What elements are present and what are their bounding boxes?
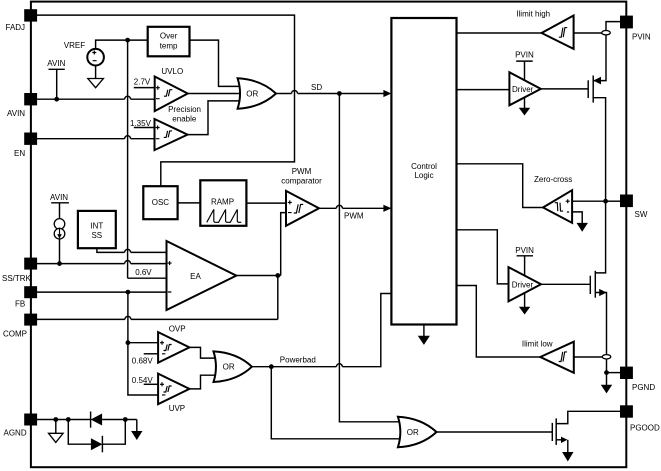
pin FADJ xyxy=(6,9,38,32)
VREF source V1 xyxy=(64,40,128,78)
ground arrow right of diodes xyxy=(131,420,142,441)
comparator Ilimit high xyxy=(516,9,573,49)
wire Over temp output to OR xyxy=(190,40,240,86)
svg-text:UVP: UVP xyxy=(169,404,185,413)
pin AVIN xyxy=(7,93,37,118)
wire COMP to EA output node (hop over FB line) xyxy=(37,276,278,320)
wire RAMP to PWM comparator + input xyxy=(246,202,286,204)
current source I1 xyxy=(54,219,65,264)
svg-text:AVIN: AVIN xyxy=(47,59,65,68)
node SD junction xyxy=(337,91,342,96)
wire PVIN pin to high-side FET drain xyxy=(593,22,620,81)
wire EA output to node xyxy=(236,275,280,277)
wire FB vertical to OVP/UVP xyxy=(128,294,158,395)
ground arrow below Control Logic xyxy=(418,325,430,345)
wire Control Logic to Driver2 xyxy=(457,230,509,284)
ground (open) below AGND node xyxy=(49,420,64,443)
svg-text:SD: SD xyxy=(311,83,322,92)
wire UVLO output xyxy=(188,93,241,95)
svg-text:Driver: Driver xyxy=(512,280,534,289)
node PGND junction xyxy=(604,370,609,375)
block Over temp xyxy=(148,27,190,57)
svg-text:0.68V: 0.68V xyxy=(132,356,154,365)
power rail AVIN (soft start) xyxy=(50,193,69,219)
svg-text:OR: OR xyxy=(223,363,235,372)
svg-text:Driver: Driver xyxy=(512,85,534,94)
comparator PWM U2 xyxy=(281,167,322,226)
gate OR U1 xyxy=(238,78,276,108)
ground (open) below VREF xyxy=(88,79,104,88)
driver U3 (high-side) xyxy=(509,51,540,116)
ground arrow below PGND node xyxy=(601,373,612,394)
wire SD vertical down to OR3 xyxy=(339,95,399,422)
node VREF junction xyxy=(125,38,130,43)
svg-text:AVIN: AVIN xyxy=(7,109,25,118)
svg-text:Logic: Logic xyxy=(414,171,433,180)
wire Driver2 to Q2 gate xyxy=(541,283,590,285)
label 0.54V with wire xyxy=(132,376,158,385)
svg-text:0.6V: 0.6V xyxy=(135,268,152,277)
op-amp EA xyxy=(167,241,237,310)
pin SW xyxy=(620,195,648,220)
svg-text:Over: Over xyxy=(160,32,178,41)
svg-text:OR: OR xyxy=(246,89,258,98)
wire OVP output to OR2 xyxy=(189,347,215,358)
node Powerbad junction xyxy=(269,364,274,369)
wire Over temp input xyxy=(128,39,148,41)
wire Control Logic to Ilimit low xyxy=(457,286,541,358)
wire PWM output to Control Logic (hop over SD vertical) xyxy=(319,205,384,220)
svg-text:Control: Control xyxy=(411,162,437,171)
node FB-OVP junction xyxy=(126,340,131,345)
svg-text:OSC: OSC xyxy=(152,198,170,207)
node AGND junction 2 xyxy=(66,417,71,422)
wire AVIN to UVLO - input (hop over VREF line) xyxy=(37,96,155,99)
svg-text:OVP: OVP xyxy=(169,324,186,333)
wire FB to OVP + input xyxy=(128,342,158,344)
svg-text:AVIN: AVIN xyxy=(50,193,68,202)
pin PVIN xyxy=(620,16,651,42)
power rail AVIN (top) xyxy=(47,59,65,101)
wire SW node to Zero-cross + input xyxy=(572,200,606,202)
comparator OVP xyxy=(158,324,189,362)
svg-text:temp: temp xyxy=(160,41,178,50)
node SW junction xyxy=(603,199,608,204)
svg-text:2.7V: 2.7V xyxy=(134,77,151,86)
bubble sense SW xyxy=(602,355,611,359)
wire OR3 output to PGOOD FET gate xyxy=(437,431,553,433)
svg-text:SW: SW xyxy=(635,210,648,219)
svg-text:OR: OR xyxy=(407,428,419,437)
comparator Precision enable xyxy=(155,105,202,150)
svg-text:PVIN: PVIN xyxy=(515,51,534,60)
svg-text:SS: SS xyxy=(91,231,102,240)
wire Control Logic to Zero-cross xyxy=(457,164,544,208)
comparator Zero-cross xyxy=(534,175,572,223)
wire Driver1 to Q1 gate xyxy=(541,88,588,90)
label 0.6V with wire from VREF xyxy=(128,268,167,278)
label 0.68V with wire xyxy=(132,354,158,366)
wire SW node to SW pin xyxy=(606,200,620,202)
pin PGND xyxy=(620,367,655,393)
label 2.7V with wire xyxy=(134,77,155,87)
wire SW vertical to low-side FET drain xyxy=(595,201,605,273)
wire Control Logic to Driver1 xyxy=(457,89,510,91)
block Control Logic xyxy=(391,18,456,325)
svg-text:FB: FB xyxy=(15,300,25,309)
wire FB to EA - input xyxy=(37,291,167,293)
wire Precision enable output xyxy=(188,101,240,135)
svg-text:EN: EN xyxy=(14,149,25,158)
diode D2 (pointing right) xyxy=(68,420,125,453)
svg-text:enable: enable xyxy=(172,115,197,124)
wire FADJ to OSC xyxy=(33,15,295,186)
arrow PWM into Control Logic xyxy=(383,205,391,212)
pin SS/TRK xyxy=(2,258,37,283)
block RAMP xyxy=(200,180,246,226)
svg-text:PVIN: PVIN xyxy=(515,246,534,255)
node EA output junction xyxy=(275,273,280,278)
svg-text:INT: INT xyxy=(90,222,103,231)
node AGND junction 1 xyxy=(53,417,58,422)
diode D1 (pointing left) xyxy=(91,412,137,428)
gate OR3 (PGOOD) xyxy=(398,417,437,448)
wire AGND from pin xyxy=(37,419,91,421)
svg-text:RAMP: RAMP xyxy=(211,198,234,207)
svg-text:PVIN: PVIN xyxy=(632,33,651,42)
pin PGOOD xyxy=(620,405,660,432)
svg-text:PGOOD: PGOOD xyxy=(630,424,660,433)
wire EN to precision enable - input (hop over VREF line) xyxy=(37,136,155,139)
node diode junction xyxy=(123,417,128,422)
svg-text:EA: EA xyxy=(190,272,201,281)
svg-text:FADJ: FADJ xyxy=(6,23,26,32)
comparator UVP xyxy=(158,374,189,414)
arrow SD into Control Logic xyxy=(383,90,391,97)
transistor Q3 PGOOD xyxy=(552,411,620,461)
transistor Q1 high-side xyxy=(588,76,605,202)
wire Powerbad down to OR3 xyxy=(271,369,399,439)
wire SD: OR output to Control Logic (hop over FADJ line) xyxy=(276,83,384,94)
pin AGND xyxy=(4,414,38,438)
wire UVP output to OR2 xyxy=(189,375,215,389)
svg-text:COMP: COMP xyxy=(3,330,27,339)
svg-text:AGND: AGND xyxy=(4,428,27,437)
svg-text:Zero-cross: Zero-cross xyxy=(534,175,572,184)
svg-text:VREF: VREF xyxy=(64,41,85,50)
node FB junction xyxy=(126,290,131,295)
wire PGND node to PGND pin xyxy=(607,372,621,374)
wire Ilimit low input to SW sense xyxy=(574,356,602,358)
svg-text:Ilimit high: Ilimit high xyxy=(516,9,550,18)
wire Control Logic to Ilimit high xyxy=(457,32,542,34)
wire Powerbad to Control Logic (hop over SD vertical) xyxy=(252,294,392,367)
svg-text:Ilimit low: Ilimit low xyxy=(522,340,553,349)
comparator UVLO xyxy=(155,67,188,111)
gate OR2 (Powerbad) xyxy=(214,351,252,382)
wire SS/TRK to EA + input (hop over VREF line) xyxy=(37,261,167,264)
block INT SS xyxy=(78,211,116,248)
comparator Ilimit low xyxy=(522,340,574,373)
svg-text:comparator: comparator xyxy=(281,176,322,185)
label 1.35V with wire xyxy=(130,119,155,128)
svg-text:SS/TRK: SS/TRK xyxy=(2,274,32,283)
pin FB xyxy=(15,286,37,308)
ground arrow Zero-cross - input xyxy=(572,212,588,232)
driver U4 (low-side) xyxy=(509,246,542,315)
svg-text:Powerbad: Powerbad xyxy=(280,355,316,364)
svg-text:PGND: PGND xyxy=(632,383,655,392)
block OSC xyxy=(143,186,177,219)
wire VREF vertical to 0.6V xyxy=(127,42,129,278)
node SS junction xyxy=(57,261,62,266)
svg-text:PWM: PWM xyxy=(344,212,364,221)
wire PWM comparator - input from EA output xyxy=(281,213,286,276)
transistor Q2 low-side xyxy=(590,271,606,373)
wire OSC to RAMP xyxy=(178,202,201,204)
svg-text:UVLO: UVLO xyxy=(161,67,183,76)
pin EN xyxy=(14,133,37,159)
bubble sense PVIN xyxy=(602,31,611,35)
wire INT SS to EA (hop over VREF line) xyxy=(97,248,167,252)
pin COMP xyxy=(3,314,37,339)
svg-text:PWM: PWM xyxy=(292,167,312,176)
wire Ilimit high input to PVIN sense xyxy=(574,32,602,34)
svg-text:Precision: Precision xyxy=(168,105,201,114)
